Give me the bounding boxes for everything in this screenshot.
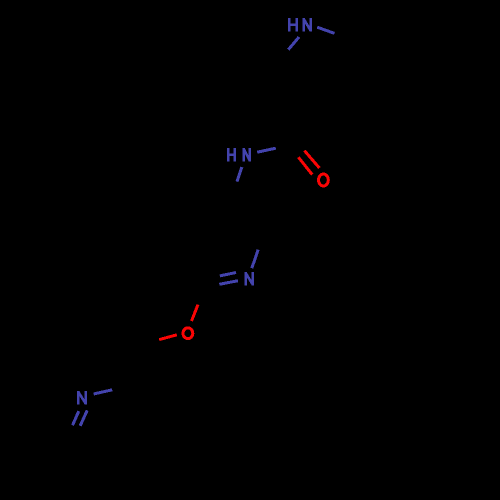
carbonyl O label: [319, 174, 329, 186]
wire: bond amide N to carbonyl C (blue half): [257, 148, 276, 152]
pyridine N label (middle ring): [246, 272, 253, 286]
wire: bond N1 to C2 (blue half): [288, 37, 299, 50]
ether O label: [183, 328, 193, 339]
wire: bond amide N to pyridine C3' (blue half): [237, 167, 242, 182]
wire: bond ether O to pyridine C2' (red half): [192, 305, 199, 321]
bottom pyridine N label: [78, 391, 85, 405]
wire: pyridine N=C2 double bond inner line (blue half): [220, 273, 236, 276]
wire: bottom pyridine N=C3 double bond main line (blue half): [73, 411, 79, 425]
wire: bottom pyridine N=C3 double bond inner line (blue half): [80, 410, 87, 425]
wire: bond pyridine N to C6 (blue half): [252, 250, 258, 269]
wire: C=O double bond line 2 (red half): [298, 157, 312, 174]
wire: bond ether O to CH2 (red half): [159, 335, 177, 340]
wire: bond N1 to C7a (blue half): [317, 27, 334, 33]
wire: bond bottom N to C2'' (blue half): [94, 390, 113, 394]
amide N-H label (HN, middle): [228, 148, 249, 162]
pyrrole N1-H label (HN, top): [289, 18, 310, 32]
wire: pyridine N=C2 double bond main line (blue half): [219, 281, 238, 285]
wire: C=O double bond line 1 (red half): [304, 151, 319, 168]
